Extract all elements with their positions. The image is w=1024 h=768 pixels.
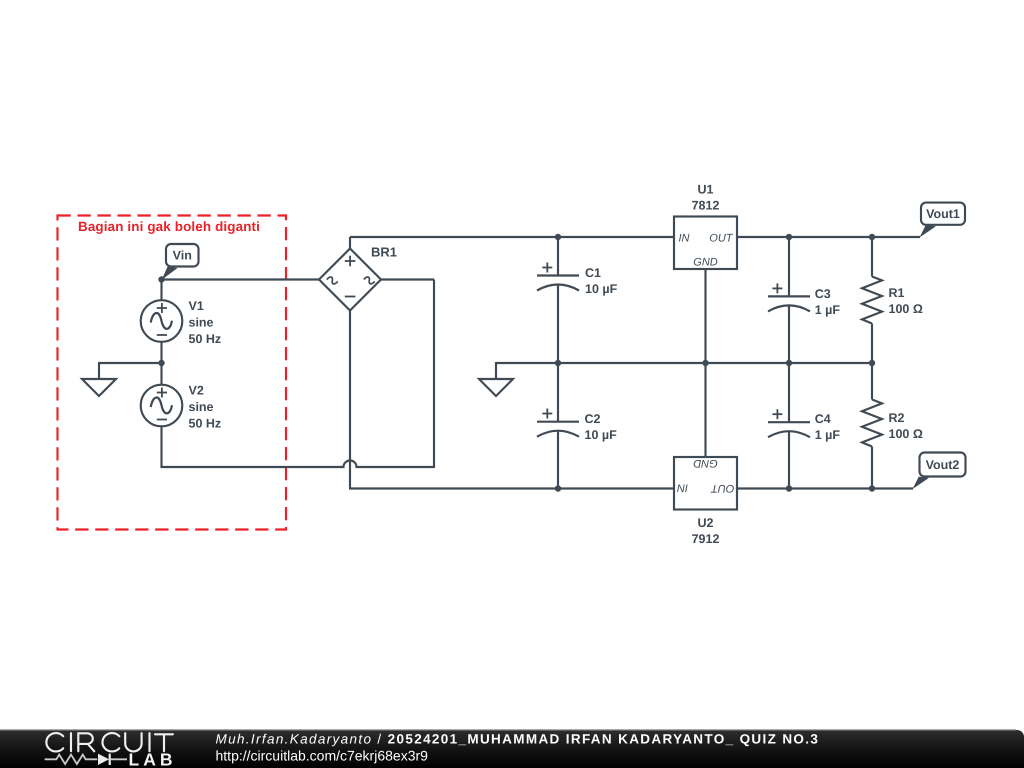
junction node C3 top	[786, 234, 792, 240]
svg-text:http://circuitlab.com/c7ekrj68: http://circuitlab.com/c7ekrj68ex3r9	[216, 748, 429, 764]
bridge rectifier BR1	[319, 249, 381, 311]
wire bottom loop horizontal with hop	[161, 461, 435, 468]
C3 value label	[815, 303, 841, 317]
node flag Vout1	[920, 203, 966, 238]
junction node regulators GND	[702, 360, 708, 366]
svg-text:LAB: LAB	[129, 749, 177, 768]
svg-text:10 µF: 10 µF	[585, 428, 618, 442]
wire loop top to BR1 right vertex	[381, 278, 434, 280]
U2 name label	[698, 516, 714, 530]
voltage source V1	[141, 300, 183, 342]
svg-text:BR1: BR1	[371, 245, 397, 260]
resistor R1	[862, 236, 882, 363]
wire BR1 top riser	[349, 237, 351, 249]
svg-text:50 Hz: 50 Hz	[189, 332, 222, 346]
wire Vin node to V1 top	[160, 280, 162, 301]
junction node C2 bottom	[555, 485, 561, 491]
svg-text:C2: C2	[585, 412, 601, 426]
svg-text:7912: 7912	[692, 532, 720, 546]
capacitor C1	[537, 236, 579, 363]
V2 name label	[189, 384, 204, 398]
footer bar	[0, 730, 1024, 768]
C2 name label	[585, 412, 601, 426]
svg-text:R1: R1	[889, 286, 905, 300]
C3 name label	[815, 287, 831, 301]
U2 pin label IN	[677, 482, 688, 494]
svg-text:1 µF: 1 µF	[815, 428, 841, 442]
capacitor C4	[768, 362, 810, 489]
wire ground 2 stub	[495, 362, 497, 379]
R2 name label	[889, 411, 905, 425]
wire U1 GND pin	[704, 269, 706, 363]
capacitor C3	[768, 236, 810, 363]
svg-text:C1: C1	[585, 266, 601, 280]
R1 name label	[889, 286, 905, 300]
U1 value label 7812	[692, 199, 720, 213]
svg-text:1 µF: 1 µF	[815, 303, 841, 317]
wire ground stub horizontal	[99, 362, 162, 379]
wire top rail right segment	[737, 236, 920, 238]
C1 value label	[585, 282, 618, 296]
node flag Vout2	[913, 453, 966, 490]
wire U2 GND pin	[704, 363, 706, 457]
svg-text:Muh.Irfan.Kadaryanto / 2052420: Muh.Irfan.Kadaryanto / 20524201_MUHAMMAD…	[216, 732, 820, 747]
footer url line	[216, 748, 429, 764]
wire middle rail	[496, 362, 872, 364]
V2 value labels sine 50 Hz	[189, 400, 222, 431]
svg-text:7812: 7812	[692, 199, 720, 213]
footer logo LAB	[129, 749, 177, 768]
junction node Vin	[158, 276, 164, 282]
svg-text:50 Hz: 50 Hz	[189, 417, 222, 431]
U1 pin label IN	[679, 232, 690, 244]
svg-text:C3: C3	[815, 287, 831, 301]
wire V1 bottom to V2 top	[160, 342, 162, 386]
U2 pin label GND	[693, 457, 718, 469]
svg-text:V2: V2	[189, 384, 204, 398]
svg-text:IN: IN	[679, 232, 690, 244]
resistor R2	[862, 362, 882, 489]
svg-text:R2: R2	[889, 411, 905, 425]
svg-text:10 µF: 10 µF	[585, 282, 618, 296]
V1 value labels sine 50 Hz	[189, 316, 222, 347]
svg-text:Bagian ini gak boleh diganti: Bagian ini gak boleh diganti	[78, 219, 260, 234]
C2 value label	[585, 428, 618, 442]
svg-text:GND: GND	[693, 457, 718, 469]
svg-text:GND: GND	[693, 257, 718, 269]
red annotation box	[58, 216, 287, 530]
svg-text:Vout1: Vout1	[926, 207, 960, 221]
footer logo squiggle resistor and diode	[45, 754, 127, 765]
junction node R1 R2 mid	[869, 360, 875, 366]
svg-text:U2: U2	[698, 516, 714, 530]
U2 pin label OUT	[710, 482, 735, 494]
ground symbol 1	[82, 379, 116, 396]
U1 pin label GND	[693, 257, 718, 269]
junction node R2 bottom	[869, 485, 875, 491]
svg-text:OUT: OUT	[710, 482, 735, 494]
svg-text:U1: U1	[698, 183, 714, 197]
junction node C1 top	[555, 234, 561, 240]
svg-text:100 Ω: 100 Ω	[889, 427, 923, 441]
ground symbol 2	[479, 379, 513, 396]
wire Vin node to BR1 left	[162, 278, 320, 280]
voltage source V2	[141, 385, 183, 427]
U2 value label 7912	[692, 532, 720, 546]
svg-text:Vin: Vin	[173, 249, 192, 263]
capacitor C2	[537, 362, 579, 489]
wire BR1 bottom vertical	[349, 310, 351, 489]
junction node C4 bottom	[786, 485, 792, 491]
svg-text:C4: C4	[815, 412, 831, 426]
footer title line	[216, 732, 820, 747]
wire loop right vertical	[433, 280, 435, 469]
red annotation text	[78, 219, 260, 234]
C4 value label	[815, 428, 841, 442]
BR1 label	[371, 245, 397, 260]
wire bottom rail left segment	[349, 487, 674, 489]
C4 name label	[815, 412, 831, 426]
node flag Vin	[162, 244, 199, 280]
svg-text:Vout2: Vout2	[926, 458, 960, 472]
junction node R1 top	[869, 234, 875, 240]
V1 name label	[189, 299, 204, 313]
junction node between V1 V2	[158, 360, 164, 366]
regulator U1 body	[674, 217, 737, 270]
junction node C1 C2 mid	[555, 360, 561, 366]
svg-text:V1: V1	[189, 299, 204, 313]
wire top rail left segment	[350, 236, 674, 238]
R2 value label	[889, 427, 923, 441]
C1 name label	[585, 266, 601, 280]
R1 value label	[889, 302, 923, 316]
U1 pin label OUT	[709, 232, 734, 244]
regulator U2 body	[674, 457, 737, 510]
svg-text:sine: sine	[189, 316, 214, 330]
svg-text:OUT: OUT	[709, 232, 734, 244]
wire bottom rail right segment	[737, 487, 913, 489]
svg-text:100 Ω: 100 Ω	[889, 302, 923, 316]
U1 name label	[698, 183, 714, 197]
footer logo CIRCUIT	[46, 733, 173, 751]
junction node C3 C4 mid	[786, 360, 792, 366]
svg-text:sine: sine	[189, 400, 214, 414]
wire V2 bottom down	[160, 427, 162, 469]
svg-text:IN: IN	[677, 482, 688, 494]
